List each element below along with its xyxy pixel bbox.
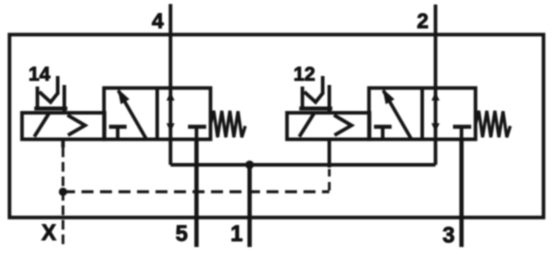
svg-text:14: 14: [29, 64, 51, 86]
supply line horizontal: [171, 163, 436, 167]
valve V1 body: [104, 88, 211, 139]
pilot amplifier triangle V2: [334, 115, 352, 135]
supply stub V1: [169, 139, 173, 165]
pilot hat V poppet V1: [39, 92, 57, 102]
svg-text:X: X: [42, 220, 57, 245]
pilot hat left wall V2: [301, 87, 305, 107]
valve V1 blocked T stem: [116, 127, 120, 140]
pilot box V1: [22, 113, 105, 140]
valve V2 exhaust T (port 3 closed): [453, 125, 471, 129]
valve V2 passage arrow up: [431, 92, 439, 100]
pilot hat pin V1: [56, 76, 60, 95]
pilot hat bar V2: [299, 107, 332, 111]
pilot hat pin V2: [321, 76, 325, 95]
spring V2: [476, 111, 511, 138]
pilot hat right wall V1: [63, 85, 67, 113]
valve V2 passage arrow down: [431, 123, 439, 132]
valve V1 passage arrow down: [166, 123, 174, 132]
valve V2 divider: [420, 88, 424, 139]
port 2 line: [434, 5, 438, 89]
valve V2 passage 1-2: [434, 88, 438, 139]
port 5 line: [194, 139, 198, 247]
valve V1 passage 1-4: [169, 88, 173, 139]
valve V2 body: [369, 88, 476, 139]
svg-text:3: 3: [443, 223, 455, 248]
svg-text:2: 2: [417, 10, 429, 33]
valve V2 crossover diagonal: [383, 91, 411, 139]
enclosure box: [10, 35, 544, 218]
valve V2 exhaust T stem: [460, 127, 464, 140]
pilot solenoid slash V1: [34, 114, 49, 137]
svg-text:12: 12: [294, 64, 316, 86]
pilot stem solid V1: [61, 139, 65, 147]
valve V1 crossover diagonal: [118, 91, 146, 139]
valve V1 exhaust T (port 5 closed): [188, 125, 206, 129]
pilot solenoid slash V2: [299, 114, 314, 137]
pilot stem solid V2 (crosses supply line): [327, 139, 331, 167]
valve V1 divider: [155, 88, 159, 139]
pilot hat bar V1: [34, 107, 67, 111]
junction dot X node: [59, 188, 67, 196]
pilot hat left wall V1: [36, 87, 40, 107]
pilot line dashed vertical V2: [328, 169, 331, 191]
pilot hat right wall V2: [327, 85, 331, 113]
valve V2 diagonal arrowhead: [383, 89, 395, 105]
valve V1 exhaust T stem: [195, 127, 199, 140]
port 3 line: [459, 139, 463, 247]
svg-text:4: 4: [152, 10, 164, 33]
port 4 line: [169, 4, 173, 89]
pilot amplifier triangle V1: [68, 115, 86, 135]
pilot hat V poppet V2: [304, 92, 322, 102]
port 1 line: [247, 165, 251, 247]
svg-text:5: 5: [176, 221, 188, 246]
valve V1 diagonal arrowhead: [118, 89, 130, 105]
valve V2 blocked T (port 1 closed): [374, 125, 392, 129]
valve V1 blocked T (port 1 closed): [109, 125, 127, 129]
pilot line dashed vertical V1 to X: [62, 148, 65, 245]
valve V1 passage arrow up: [166, 92, 174, 100]
supply stub V2: [434, 139, 438, 165]
pilot box V2: [287, 113, 370, 140]
spring V1: [211, 111, 246, 138]
junction dot port 1: [245, 161, 254, 170]
pilot line dashed horizontal: [63, 190, 329, 193]
valve V2 blocked T stem: [381, 127, 385, 140]
svg-text:1: 1: [231, 221, 243, 246]
